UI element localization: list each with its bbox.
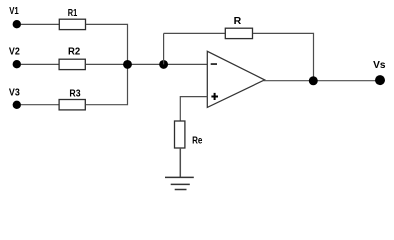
wire V3 to R3	[21, 104, 59, 106]
resistor R (feedback)	[225, 28, 252, 38]
wire op-amp output to Vs	[264, 80, 377, 82]
svg-text:Vs: Vs	[373, 59, 386, 71]
wire Re to ground	[179, 148, 181, 177]
wire R2 to node A	[86, 63, 128, 65]
node A junction dot	[123, 60, 132, 69]
wire R1 to junction column	[86, 24, 128, 64]
svg-text:V1: V1	[9, 5, 19, 17]
wire node A to op-amp inverting input	[128, 63, 208, 65]
wire node B up to feedback row	[163, 33, 165, 64]
svg-text:R1: R1	[68, 7, 78, 19]
wire V1 to R1	[21, 23, 59, 25]
svg-text:R3: R3	[69, 87, 80, 99]
ground	[165, 177, 194, 189]
resistor R2	[59, 59, 85, 69]
svg-text:Re: Re	[192, 135, 202, 147]
node V1 terminal	[13, 20, 21, 28]
op-amp U1 body	[207, 51, 264, 107]
node Vs terminal	[375, 75, 385, 85]
svg-text:V3: V3	[9, 86, 20, 98]
wire V2 to R2	[21, 63, 59, 65]
op-amp minus sign	[211, 63, 217, 65]
wire feedback left segment	[164, 32, 225, 34]
node B junction dot	[159, 60, 168, 69]
wire R3 to junction column	[86, 64, 128, 104]
node V3 terminal	[13, 101, 21, 109]
wire op-amp non-inverting input to Re	[180, 97, 207, 121]
resistor R3	[59, 100, 85, 110]
svg-text:R: R	[234, 15, 242, 27]
output junction dot	[309, 76, 318, 85]
resistor R1	[59, 19, 85, 29]
svg-text:R2: R2	[68, 45, 80, 57]
op-amp plus sign	[211, 93, 218, 100]
wire feedback right segment down to output node	[253, 33, 314, 80]
resistor Re	[175, 121, 185, 148]
svg-text:V2: V2	[9, 46, 20, 58]
node V2 terminal	[13, 60, 21, 68]
